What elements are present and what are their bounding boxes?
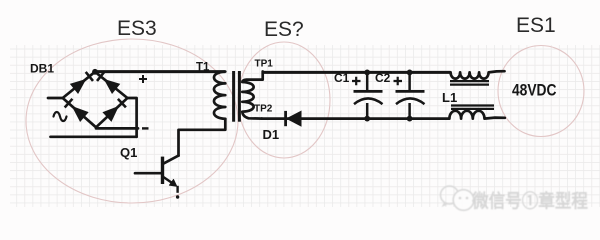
capacitor C1 bbox=[366, 72, 369, 90]
wire AC stub left vertex bbox=[48, 97, 63, 100]
junction dot C1 top bbox=[364, 70, 370, 76]
junction dot C2 top bbox=[407, 70, 413, 76]
svg-text:C1: C1 bbox=[334, 71, 350, 85]
L1 core bottom bbox=[451, 104, 494, 106]
svg-text:ES3: ES3 bbox=[117, 17, 157, 40]
ellipse ES? region bbox=[238, 42, 330, 158]
junction dot C2 bottom bbox=[407, 116, 413, 122]
bridge DB1 diamond bbox=[63, 72, 128, 128]
transistor Q1 emitter bbox=[163, 177, 174, 185]
svg-text:微信号①章型程: 微信号①章型程 bbox=[471, 191, 588, 212]
transformer T1 primary winding bbox=[214, 72, 225, 119]
transistor Q1 collector bbox=[163, 156, 179, 164]
AC sine symbol bbox=[54, 112, 67, 121]
wire Q1 emitter down bbox=[176, 186, 178, 193]
watermark icon bbox=[441, 186, 474, 210]
svg-text:T1: T1 bbox=[196, 62, 210, 74]
wire + rail to transformer bbox=[95, 70, 225, 73]
ellipse ES3 region bbox=[26, 39, 238, 203]
svg-text:Q1: Q1 bbox=[120, 145, 137, 160]
L1 core top bbox=[450, 80, 489, 82]
transformer T1 core bbox=[232, 71, 235, 122]
label C1 plus bbox=[352, 77, 361, 86]
emitter terminal dot bbox=[176, 195, 179, 198]
transformer T1 secondary winding bbox=[242, 72, 262, 119]
svg-text:TP1: TP1 bbox=[255, 59, 274, 70]
label + (bridge positive) bbox=[139, 75, 147, 83]
wire bottom vertex minus line bbox=[96, 127, 138, 130]
svg-text:D1: D1 bbox=[263, 127, 280, 142]
capacitor C2 bbox=[408, 72, 411, 90]
svg-text:TP2: TP2 bbox=[254, 104, 273, 115]
wire bridge right vertex to minus rail bbox=[127, 98, 136, 137]
grid background bbox=[10, 45, 600, 207]
diode D-UL of DB1 bbox=[71, 80, 86, 93]
diode D-LL of DB1 bbox=[73, 107, 88, 121]
wire AC bottom rail bbox=[51, 135, 137, 138]
transistor Q1 base bar bbox=[161, 157, 164, 184]
wire primary bottom to Q1 collector bbox=[179, 119, 226, 156]
diode D-LR of DB1 bbox=[103, 107, 118, 121]
diode D-UR of DB1 bbox=[105, 80, 120, 93]
diode D1 bbox=[287, 111, 301, 126]
wire TP1 rail to L1 bbox=[262, 71, 451, 74]
junction dot bridge + output bbox=[92, 69, 98, 75]
wire TP2 rail to L1 bbox=[261, 117, 450, 120]
inductor L1 top winding bbox=[451, 71, 505, 78]
svg-text:ES1: ES1 bbox=[516, 14, 556, 37]
label C2 plus bbox=[394, 77, 403, 86]
svg-text:ES?: ES? bbox=[264, 18, 304, 41]
junction dot C1 bottom bbox=[364, 116, 370, 122]
svg-text:L1: L1 bbox=[442, 90, 457, 105]
inductor L1 bottom winding bbox=[449, 111, 504, 119]
ellipse ES1 region bbox=[498, 46, 584, 137]
svg-text:48VDC: 48VDC bbox=[512, 81, 557, 100]
svg-text:C2: C2 bbox=[375, 71, 391, 85]
svg-text:DB1: DB1 bbox=[30, 62, 54, 76]
label - (bridge negative) bbox=[142, 127, 149, 129]
transistor Q1 base lead bbox=[135, 172, 161, 175]
